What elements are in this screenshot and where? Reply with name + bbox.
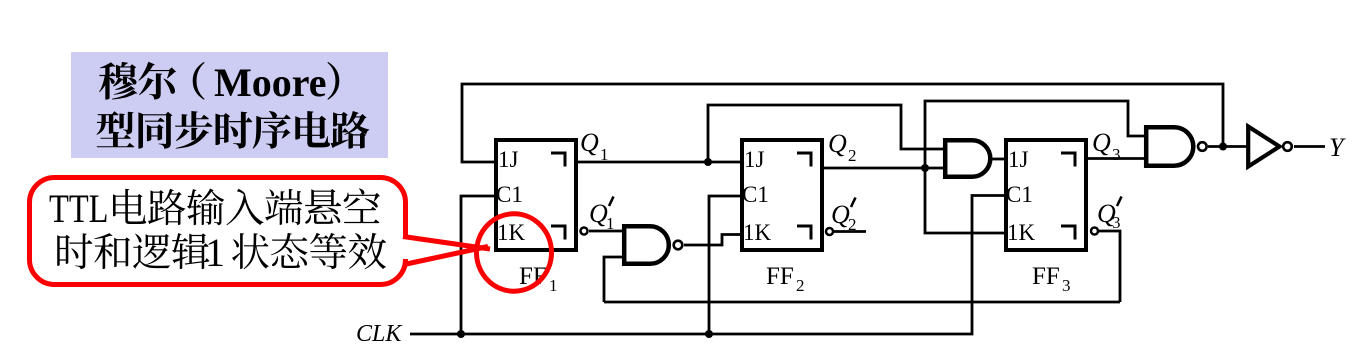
svg-text:1: 1 xyxy=(205,230,225,275)
callout tail lower line xyxy=(404,247,488,265)
svg-text:C1: C1 xyxy=(1006,182,1033,207)
wire: CLK riser to FF1 C1 xyxy=(461,196,495,334)
junction CLK to FF1 xyxy=(457,330,465,338)
flip-flop FF1 xyxy=(496,140,588,250)
svg-text:TTL: TTL xyxy=(49,186,109,231)
AND gate G2 xyxy=(945,140,990,177)
svg-text:3: 3 xyxy=(1112,145,1121,164)
label FF1 xyxy=(519,263,558,295)
svg-text:C1: C1 xyxy=(496,182,523,207)
label Q2 xyxy=(828,129,857,165)
svg-text:2: 2 xyxy=(848,146,857,165)
red ellipse around FF1 1K xyxy=(477,214,552,291)
flip-flop FF3 xyxy=(1006,140,1098,250)
NAND gate G3 xyxy=(1146,127,1206,166)
junction on Q2 node xyxy=(921,164,929,172)
wire Q2: FF2 Q to AND G2 bottom input xyxy=(823,167,944,170)
svg-text:C1: C1 xyxy=(742,182,769,207)
callout text line 1 xyxy=(49,186,380,231)
svg-text:2: 2 xyxy=(796,276,805,295)
inverter G4 xyxy=(1248,127,1292,167)
wire: inverter G4 output to Y xyxy=(1294,145,1325,148)
svg-text:1: 1 xyxy=(549,276,558,295)
wire D: Q'3 feedback bus xyxy=(604,301,1120,304)
svg-text:1K: 1K xyxy=(743,220,772,245)
red callout bubble xyxy=(30,178,406,285)
junction after NAND G3 xyxy=(1219,143,1227,151)
wire: Q2 node down to FF3 1K xyxy=(925,168,1005,233)
svg-text:FF: FF xyxy=(1032,263,1060,290)
svg-text:1J: 1J xyxy=(498,147,519,172)
wire Q'1: FF1 Q' to NAND G1 top input xyxy=(589,230,623,233)
wire Q3: FF3 Q to NAND G3 bottom input xyxy=(1087,157,1145,160)
title text line 1: 穆尔（Moore） xyxy=(99,60,339,105)
wire: CLK riser to FF2 C1 xyxy=(709,196,741,334)
svg-text:Y: Y xyxy=(1329,133,1346,162)
wire Q'2 stub xyxy=(834,230,866,233)
title text line 2: 型同步时序电路 xyxy=(97,111,370,149)
wire: Q'3 feedback riser to NAND G1 bottom input xyxy=(604,257,623,302)
svg-text:1J: 1J xyxy=(744,147,765,172)
svg-text:Q: Q xyxy=(1092,128,1111,157)
wire B: Q1 node up and over to AND G2 top input xyxy=(708,105,944,162)
wire A: NAND G3 output feedback to FF1 1J xyxy=(462,84,1223,162)
wire C: Q2 node up and over to NAND G3 top input xyxy=(925,101,1145,168)
label Q3 xyxy=(1092,128,1121,164)
NAND gate G1 xyxy=(624,226,682,264)
junction CLK to FF2 xyxy=(705,330,713,338)
svg-text:1J: 1J xyxy=(1008,147,1029,172)
title box background xyxy=(71,52,388,158)
flip-flop FF2 xyxy=(742,140,833,250)
svg-text:1K: 1K xyxy=(497,220,526,245)
svg-text:3: 3 xyxy=(1112,213,1121,232)
wire Q'3: FF3 Q' down to wire D xyxy=(1099,231,1120,302)
svg-text:FF: FF xyxy=(766,263,794,290)
wire Q1: FF1 Q to FF2 1J xyxy=(577,161,741,164)
svg-text:2: 2 xyxy=(848,215,857,234)
label Q1 xyxy=(580,128,609,164)
wire CLK bus xyxy=(410,196,1005,335)
wire: NAND G1 output jog to FF2 1K xyxy=(684,235,741,246)
callout tail upper line xyxy=(403,237,490,250)
wire: AND G2 output to FF3 1J xyxy=(992,158,1005,161)
label FF2 xyxy=(766,263,805,295)
callout text line 2 xyxy=(57,230,386,275)
label Q'1 xyxy=(589,197,615,234)
svg-text:1: 1 xyxy=(606,214,615,233)
label Q'2 xyxy=(831,198,857,235)
svg-text:Q: Q xyxy=(580,128,599,157)
label Q'3 xyxy=(1097,197,1122,233)
wire: NAND G3 output to inverter G4 xyxy=(1208,145,1247,148)
svg-text:3: 3 xyxy=(1062,276,1071,295)
svg-text:CLK: CLK xyxy=(356,321,403,347)
label FF3 xyxy=(1032,263,1071,295)
svg-text:Moore: Moore xyxy=(214,60,327,105)
junction on Q1 node xyxy=(704,158,712,166)
svg-text:1: 1 xyxy=(600,145,609,164)
svg-text:Q: Q xyxy=(828,129,847,158)
svg-text:1K: 1K xyxy=(1007,220,1036,245)
